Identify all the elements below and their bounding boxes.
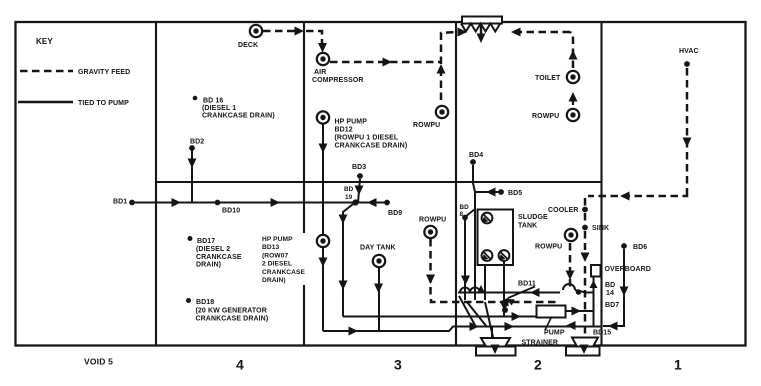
sink dashed drop: [584, 231, 587, 250]
svg-text:(ROW07: (ROW07: [262, 252, 288, 259]
node BD6: [621, 243, 627, 249]
svg-text:BD: BD: [605, 282, 615, 289]
svg-text:ROWPU: ROWPU: [413, 122, 440, 129]
arrow left y326: [566, 321, 576, 330]
suction run y331: [323, 327, 601, 332]
arrow main 1: [172, 198, 182, 207]
svg-text:BD17: BD17: [197, 238, 215, 245]
svg-text:AIR: AIR: [314, 69, 326, 76]
bd3 drop: [358, 179, 360, 203]
svg-text:DRAIN): DRAIN): [262, 277, 286, 284]
suction run y317: [343, 316, 536, 318]
riser dashed: [441, 32, 456, 100]
sink dashed drop 2: [584, 266, 587, 342]
arrow left bd11: [530, 288, 540, 297]
svg-text:BD: BD: [344, 186, 354, 193]
arrow into bulkhead: [295, 27, 305, 36]
svg-text:DRAIN): DRAIN): [196, 262, 221, 269]
pump box: [537, 306, 566, 318]
arrow down day tank: [374, 284, 383, 294]
node BD3: [357, 173, 363, 179]
svg-text:(DIESEL 1: (DIESEL 1: [202, 105, 236, 112]
arrow up toilet riser: [569, 50, 578, 60]
bulkhead VOID5/4: [155, 22, 157, 346]
hvac dashed run left: [588, 193, 687, 196]
arrow into funnel right: [511, 28, 521, 37]
hvac dashed drop: [686, 68, 689, 193]
bd6 drop line: [603, 249, 624, 326]
svg-text:BD1: BD1: [113, 199, 127, 206]
svg-text:(DIESEL 2: (DIESEL 2: [196, 246, 230, 253]
toilet riser dashed: [570, 32, 573, 68]
node BD2: [189, 145, 195, 151]
hp pump bd13 symbol: [317, 235, 329, 247]
cooler-sink dashed: [584, 213, 587, 224]
arrow main 2: [271, 198, 281, 207]
arrow on AC line: [383, 58, 393, 67]
svg-text:2: 2: [534, 357, 542, 373]
svg-text:(20 KW GENERATOR: (20 KW GENERATOR: [196, 308, 267, 315]
day tank symbol: [373, 255, 385, 267]
arrow down bd3: [355, 186, 364, 196]
node BD5: [498, 189, 504, 195]
arrow on hvac run: [620, 192, 630, 201]
bulkhead 4/3: [303, 22, 305, 346]
svg-text:OVERBOARD: OVERBOARD: [605, 266, 651, 273]
bd19 drop jog: [343, 203, 355, 317]
rowpu comp2 symbol: [565, 229, 577, 241]
sludge pump top: [482, 213, 493, 224]
bd11 join overboard: [575, 290, 594, 293]
node BD10: [215, 200, 221, 206]
node fan junction: [502, 307, 508, 313]
air compressor symbol: [317, 53, 329, 65]
svg-text:BD10: BD10: [222, 208, 240, 215]
fan diagonal b: [467, 302, 487, 327]
svg-text:TIED TO PUMP: TIED TO PUMP: [78, 100, 129, 107]
sludge pump bottom left: [482, 250, 493, 261]
svg-text:SINK: SINK: [592, 225, 609, 232]
node BD9: [384, 200, 390, 206]
arrow down rowpu mid: [426, 275, 435, 285]
fan diagonal a: [459, 296, 476, 327]
bulkhead 2/1: [600, 22, 602, 346]
node bd11 junction: [576, 289, 582, 295]
node BD19 junction: [352, 199, 358, 205]
arrow down bd13: [319, 258, 328, 268]
funnel hatch: [461, 24, 500, 32]
svg-text:BD3: BD3: [352, 164, 366, 171]
svg-text:COMPRESSOR: COMPRESSOR: [312, 77, 364, 84]
funnel cap: [462, 17, 502, 24]
sludge drop right: [503, 261, 505, 316]
svg-text:2 DIESEL: 2 DIESEL: [262, 261, 292, 268]
arrow down strainer left: [491, 345, 500, 355]
arrow down rowpu comp2: [566, 271, 575, 281]
strainer right trapezoid: [572, 338, 598, 347]
svg-text:ROWPU: ROWPU: [419, 217, 446, 224]
node BD16 bullet: [193, 96, 198, 101]
deck line: [156, 181, 602, 183]
key solid sample: [18, 101, 73, 104]
arrow left bd5: [486, 188, 496, 197]
arrow up overboard drop: [590, 280, 598, 288]
rowpu mid symbol: [424, 226, 436, 238]
svg-text:STRAINER: STRAINER: [522, 340, 559, 347]
svg-text:4: 4: [236, 357, 244, 373]
arrow into strainer right: [580, 343, 589, 353]
node BD17 bullet: [188, 236, 193, 241]
svg-text:BD 16: BD 16: [203, 98, 223, 105]
node HVAC: [684, 61, 690, 67]
arrow into funnel left: [458, 28, 468, 37]
node BD1: [129, 200, 135, 206]
rowpu dashed run right: [431, 299, 557, 302]
arrow up sludge left: [477, 285, 485, 293]
svg-text:CRANKCASE DRAIN): CRANKCASE DRAIN): [335, 143, 408, 150]
bd13 drop line: [322, 247, 324, 331]
arrow right pump discharge: [572, 307, 582, 316]
arrow left bd6 into bulkhead: [608, 322, 618, 331]
svg-text:HP PUMP: HP PUMP: [262, 236, 293, 243]
svg-text:1: 1: [674, 357, 682, 373]
svg-text:19: 19: [345, 194, 353, 201]
node BD4: [470, 159, 476, 165]
arrow down strainer right: [580, 345, 589, 355]
svg-text:(ROWPU 1 DIESEL: (ROWPU 1 DIESEL: [335, 135, 399, 142]
deck drain symbol: [250, 25, 262, 37]
svg-text:BD13: BD13: [262, 244, 279, 251]
funnel down stub: [480, 24, 482, 36]
svg-text:TOILET: TOILET: [535, 75, 561, 82]
arrow down sludge right: [500, 302, 509, 312]
bd11 leader: [508, 287, 535, 299]
arrow up riser: [437, 64, 446, 74]
svg-text:ROWPU: ROWPU: [535, 244, 562, 251]
arrow down bd19 a: [339, 215, 348, 225]
svg-text:VOID 5: VOID 5: [84, 357, 113, 367]
bd5 stub: [475, 191, 501, 193]
svg-text:BD15: BD15: [593, 330, 611, 337]
svg-text:BD5: BD5: [508, 190, 522, 197]
arrow down sink line: [581, 253, 590, 263]
wire deck to bulkhead dashed: [263, 30, 299, 33]
main suction line: [132, 202, 387, 204]
svg-text:PUMP: PUMP: [544, 330, 565, 337]
svg-text:BD: BD: [460, 204, 470, 211]
node BD18 bullet: [186, 298, 191, 303]
bd8 diagonal: [465, 209, 475, 217]
arrow right y331: [349, 327, 359, 336]
svg-text:COOLER: COOLER: [548, 207, 579, 214]
pump leader: [545, 318, 551, 330]
arrow down bd8: [461, 276, 470, 286]
arrow right y317: [512, 312, 522, 321]
cooler dashed drop: [584, 198, 587, 207]
arrow left on dashed run: [499, 298, 509, 307]
sludge pump bottom right: [499, 250, 510, 261]
toilet symbol: [567, 71, 579, 83]
svg-text:TANK: TANK: [518, 223, 537, 230]
day tank drop: [378, 268, 380, 332]
svg-text:DAY TANK: DAY TANK: [360, 245, 396, 252]
svg-text:BD18: BD18: [196, 299, 214, 306]
rowpu drain upper symbol: [436, 106, 448, 118]
strainer left trapezoid: [481, 338, 510, 347]
wire AC to riser dashed: [330, 61, 440, 64]
node BD8: [462, 215, 468, 221]
svg-text:CRANKCASE DRAIN): CRANKCASE DRAIN): [202, 113, 275, 120]
svg-text:BD6: BD6: [633, 244, 647, 251]
arrow down bd12: [319, 144, 328, 154]
rowpu comp2 dashed: [569, 243, 572, 288]
toilet dashed to funnel: [515, 31, 570, 34]
bd11 line: [458, 292, 560, 294]
svg-text:CRANKCASE: CRANKCASE: [196, 254, 242, 261]
node SINK: [582, 225, 588, 231]
wire bulkhead to corner dashed: [306, 31, 322, 44]
arrow down hvac: [683, 138, 692, 148]
rowpu dashed drop: [429, 239, 432, 299]
arrow left bd9: [367, 198, 377, 207]
fan diagonal c: [485, 302, 493, 337]
arrow toilet from rowpu: [572, 99, 574, 105]
bulkhead 3/2: [455, 22, 457, 346]
arrow down bd19 b: [339, 281, 348, 291]
bd11 hops: [460, 284, 575, 293]
svg-text:BD12: BD12: [335, 127, 353, 134]
node COOLER: [582, 207, 588, 213]
svg-text:HVAC: HVAC: [679, 48, 699, 55]
svg-text:BD2: BD2: [190, 139, 204, 146]
sludge tank box: [478, 210, 514, 266]
bd13 text mask: [260, 233, 313, 285]
svg-text:BD4: BD4: [469, 152, 483, 159]
svg-text:HP PUMP: HP PUMP: [335, 119, 368, 126]
hp pump bd12 symbol: [317, 111, 329, 123]
svg-text:3: 3: [394, 357, 402, 373]
overboard valve box: [591, 265, 601, 277]
bd4 drop: [473, 165, 475, 300]
key dashed sample: [20, 70, 73, 73]
svg-text:ROWPU: ROWPU: [532, 113, 559, 120]
rowpu toilet symbol: [567, 109, 579, 121]
svg-text:14: 14: [606, 290, 614, 297]
bd2 drop: [191, 150, 193, 203]
arrow down bd6: [620, 287, 629, 297]
svg-text:BD9: BD9: [388, 210, 402, 217]
overboard drop line: [593, 277, 595, 326]
svg-text:SLUDGE: SLUDGE: [518, 214, 548, 221]
svg-text:GRAVITY FEED: GRAVITY FEED: [78, 69, 130, 76]
svg-text:CRANKCASE: CRANKCASE: [262, 269, 306, 276]
svg-text:BD7: BD7: [605, 302, 619, 309]
bd12 drop line: [322, 124, 324, 235]
pump discharge line: [566, 310, 594, 312]
arrow down bd2: [188, 159, 197, 169]
svg-text:CRANKCASE DRAIN): CRANKCASE DRAIN): [196, 316, 269, 323]
sludge drop left: [484, 265, 486, 300]
arrow right y327: [470, 322, 480, 331]
strainer right box: [566, 347, 600, 356]
svg-text:DECK: DECK: [238, 42, 258, 49]
svg-text:KEY: KEY: [36, 37, 53, 46]
bd8 drop: [464, 220, 466, 300]
strainer left box: [476, 347, 516, 356]
arrow into air compressor: [318, 43, 327, 53]
strainer left feed: [491, 327, 493, 341]
